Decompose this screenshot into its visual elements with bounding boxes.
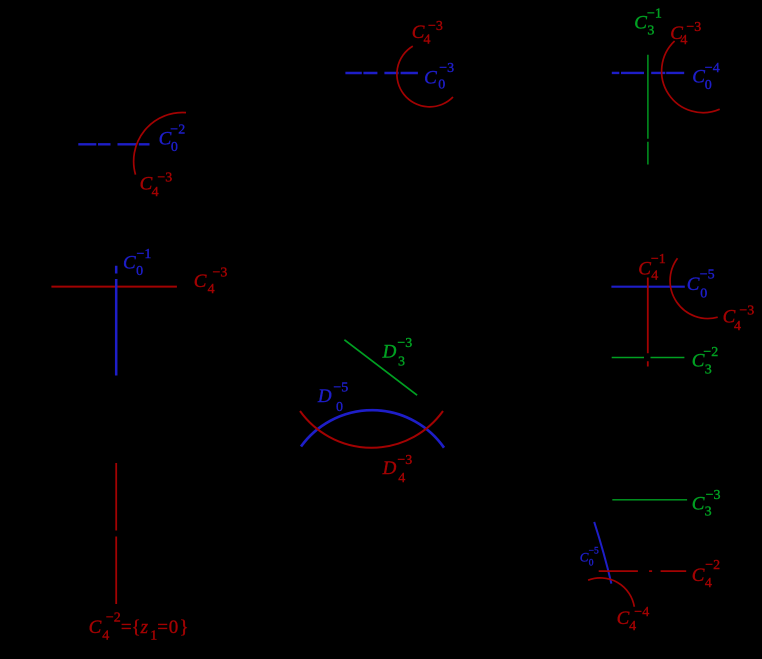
svg-text:−3: −3 xyxy=(157,170,172,185)
svg-text:0: 0 xyxy=(336,400,343,415)
svg-text:3: 3 xyxy=(647,24,654,39)
svg-text:D: D xyxy=(382,341,397,362)
svg-text:−3: −3 xyxy=(739,304,754,319)
svg-text:C: C xyxy=(692,66,705,87)
svg-text:−1: −1 xyxy=(651,252,666,267)
svg-text:{: { xyxy=(132,617,141,638)
svg-text:=: = xyxy=(121,617,132,638)
svg-text:−3: −3 xyxy=(397,336,412,351)
svg-text:−5: −5 xyxy=(700,268,715,283)
svg-text:−3: −3 xyxy=(706,488,721,503)
svg-text:C: C xyxy=(617,608,630,629)
svg-text:3: 3 xyxy=(398,354,405,369)
svg-text:0: 0 xyxy=(171,140,178,155)
svg-text:−3: −3 xyxy=(686,20,701,35)
svg-text:−2: −2 xyxy=(703,345,718,360)
svg-text:0: 0 xyxy=(700,287,707,302)
svg-text:C: C xyxy=(687,274,700,295)
svg-text:4: 4 xyxy=(651,269,658,284)
svg-text:−2: −2 xyxy=(705,558,720,573)
svg-text:C: C xyxy=(692,565,705,586)
svg-text:4: 4 xyxy=(680,33,687,48)
svg-text:z: z xyxy=(140,617,149,638)
svg-text:4: 4 xyxy=(705,576,712,591)
svg-text:−3: −3 xyxy=(397,453,412,468)
svg-text:0: 0 xyxy=(589,559,594,569)
svg-text:}: } xyxy=(180,617,189,638)
svg-text:C: C xyxy=(424,67,437,88)
svg-text:−5: −5 xyxy=(333,380,348,395)
svg-text:−2: −2 xyxy=(170,123,185,138)
svg-text:C: C xyxy=(638,258,651,279)
svg-text:0: 0 xyxy=(136,264,143,279)
svg-text:4: 4 xyxy=(734,319,741,334)
svg-text:C: C xyxy=(692,493,705,514)
svg-text:−1: −1 xyxy=(137,247,152,262)
svg-text:C: C xyxy=(580,550,589,565)
svg-text:4: 4 xyxy=(629,619,636,634)
svg-text:4: 4 xyxy=(152,185,159,200)
svg-text:0: 0 xyxy=(438,78,445,93)
svg-text:C: C xyxy=(194,271,207,292)
svg-text:−5: −5 xyxy=(589,546,599,556)
svg-text:−1: −1 xyxy=(647,7,662,22)
svg-text:C: C xyxy=(123,253,136,274)
svg-text:3: 3 xyxy=(705,504,712,519)
svg-text:−3: −3 xyxy=(439,61,454,76)
svg-text:1: 1 xyxy=(150,629,157,644)
svg-text:4: 4 xyxy=(208,282,215,297)
svg-text:0: 0 xyxy=(705,78,712,93)
svg-text:4: 4 xyxy=(102,629,109,644)
svg-text:C: C xyxy=(634,13,647,34)
svg-text:4: 4 xyxy=(398,471,405,486)
svg-text:C: C xyxy=(89,617,102,638)
svg-text:−4: −4 xyxy=(705,61,720,76)
svg-text:−3: −3 xyxy=(213,265,228,280)
svg-text:=: = xyxy=(157,617,168,638)
svg-text:3: 3 xyxy=(705,363,712,378)
svg-text:D: D xyxy=(317,386,332,407)
svg-text:−4: −4 xyxy=(634,605,649,620)
svg-text:−2: −2 xyxy=(106,611,121,626)
svg-text:D: D xyxy=(382,458,397,479)
svg-text:4: 4 xyxy=(424,32,431,47)
svg-text:0: 0 xyxy=(169,617,179,638)
